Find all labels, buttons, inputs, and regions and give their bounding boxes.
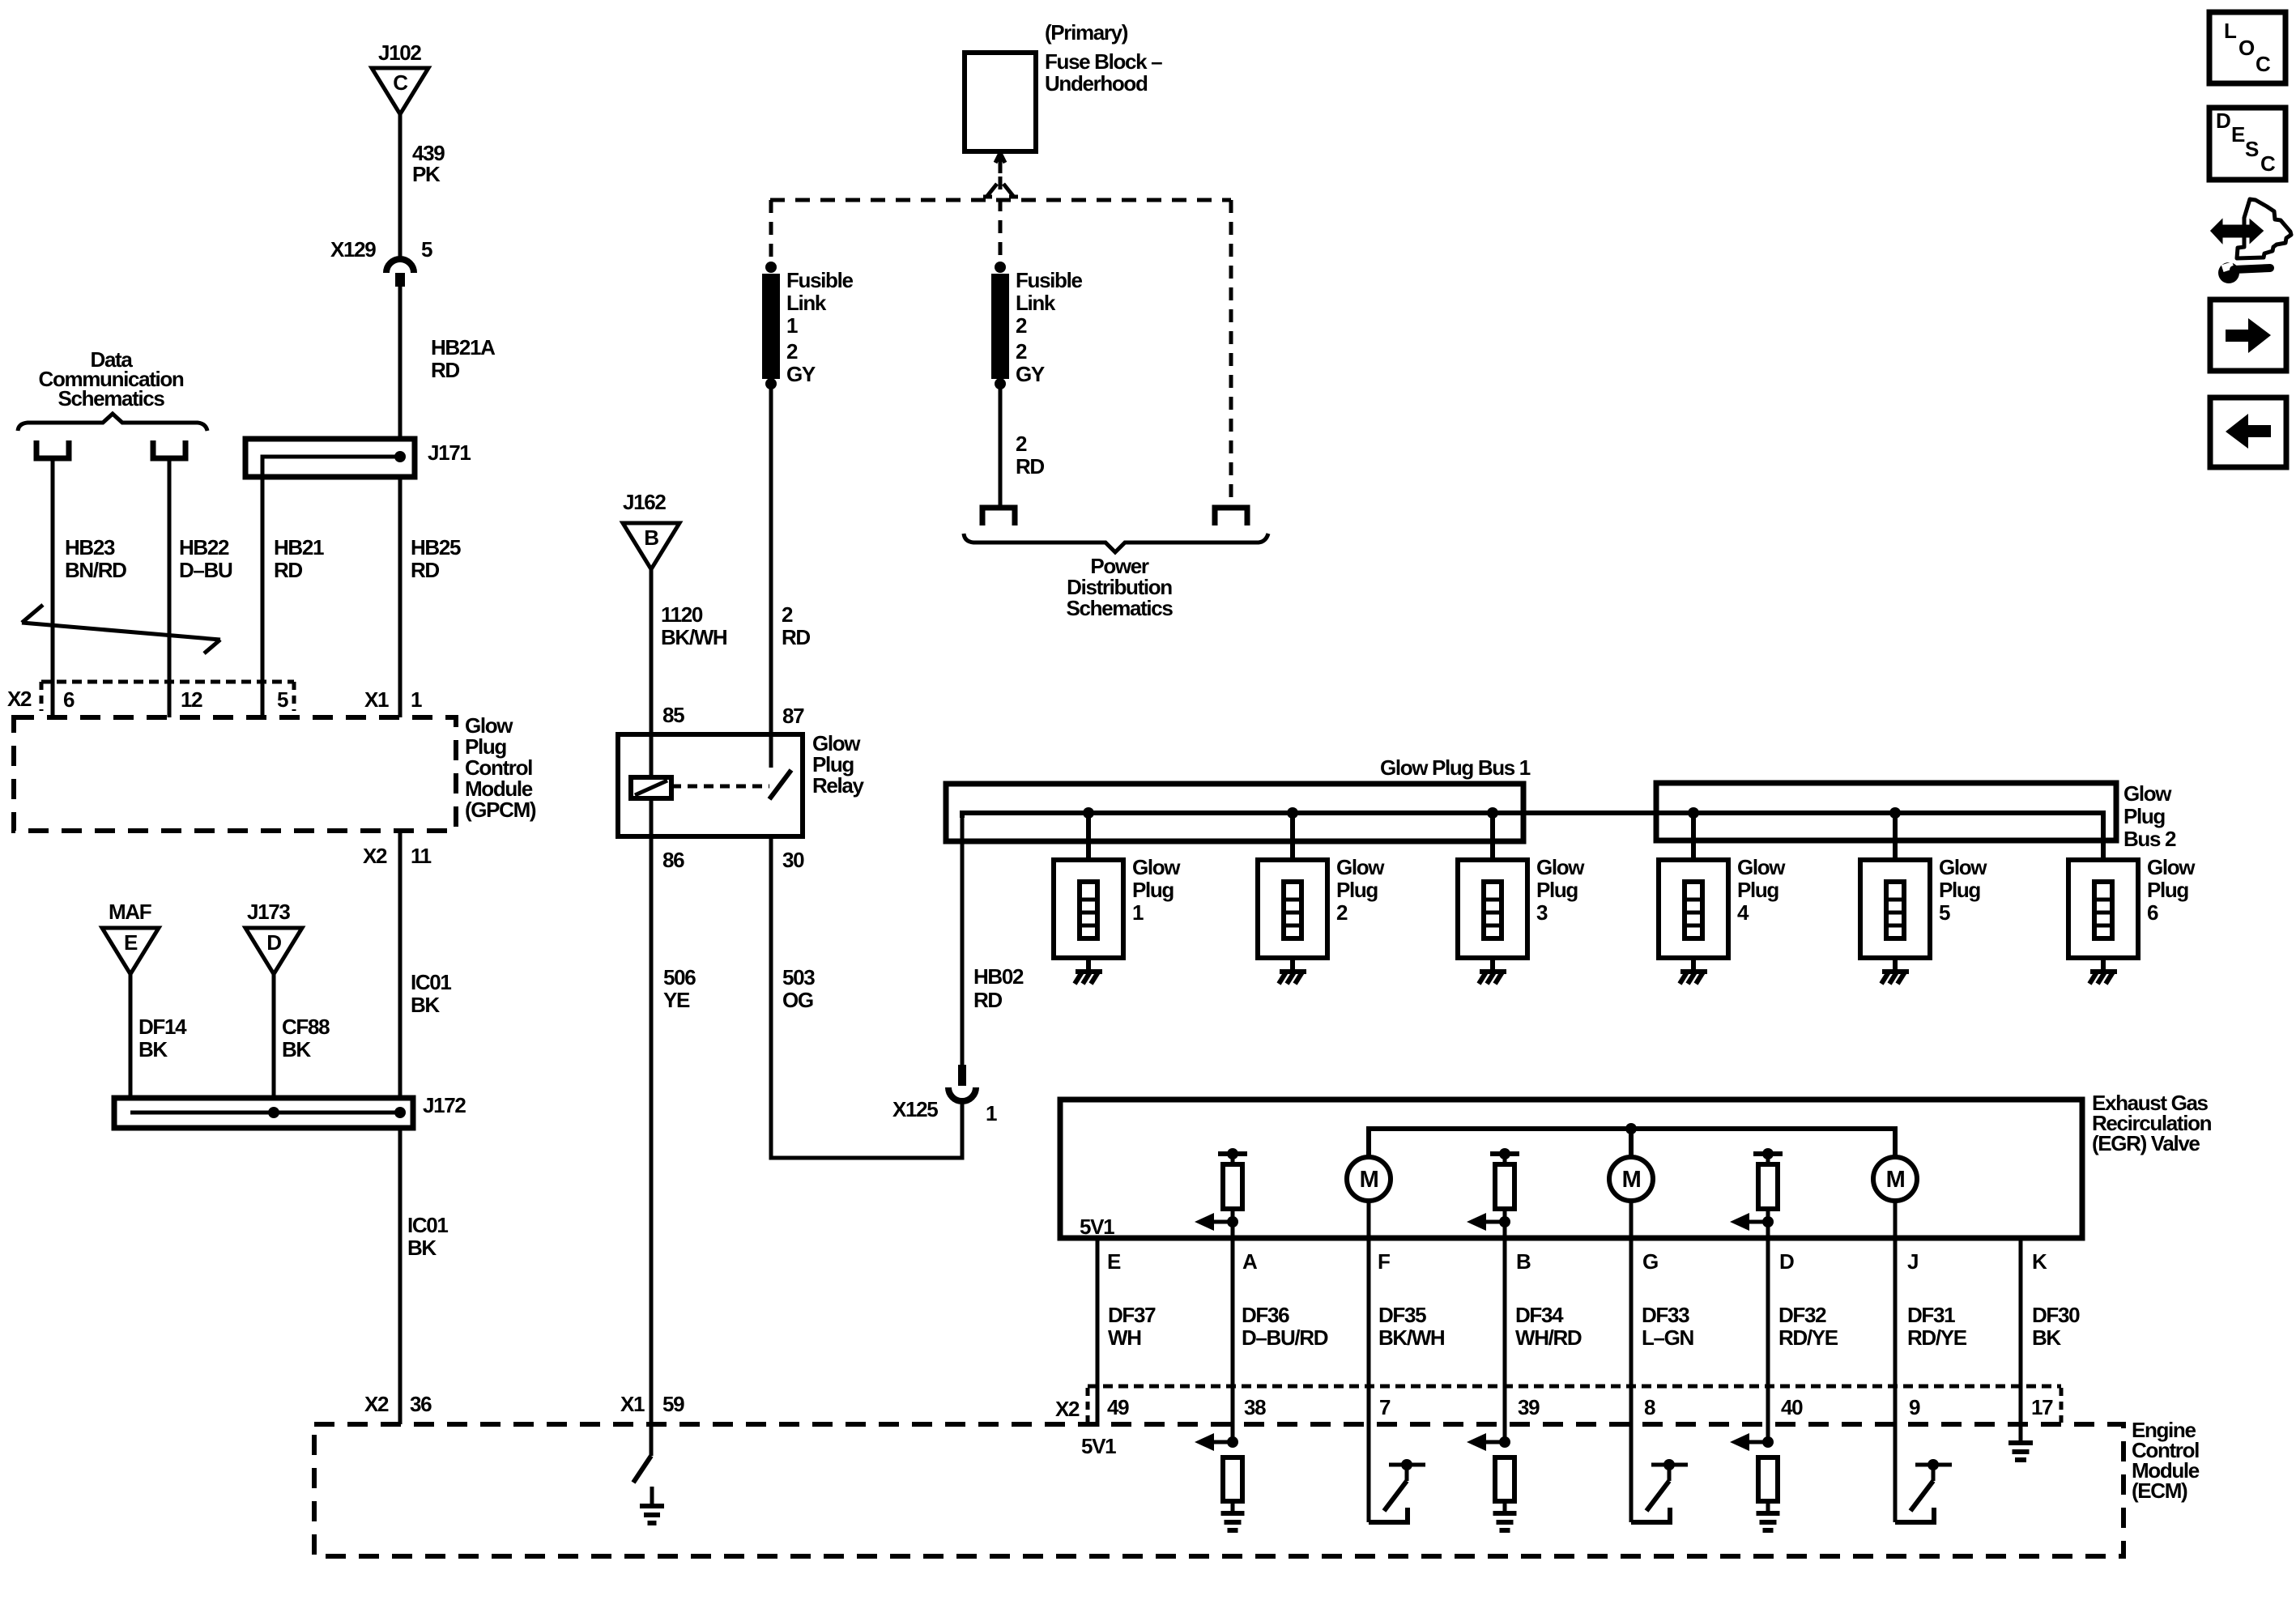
svg-text:85: 85 xyxy=(662,703,684,727)
earth ground at ECM pin 59 xyxy=(640,1504,664,1508)
svg-text:(Primary): (Primary) xyxy=(1045,20,1128,45)
junction dot J171 xyxy=(394,451,406,462)
svg-text:Fuse Block –Underhood: Fuse Block –Underhood xyxy=(1045,49,1162,96)
relay internal dashed link xyxy=(671,785,769,789)
glow plug 2 box xyxy=(1258,860,1327,958)
glow plug 3 box xyxy=(1458,860,1527,958)
svg-text:7: 7 xyxy=(1379,1395,1391,1419)
svg-text:49: 49 xyxy=(1107,1395,1129,1419)
svg-text:HB22D–BU: HB22D–BU xyxy=(179,535,232,582)
inline connector X125 pin 1 xyxy=(948,1065,976,1101)
svg-text:12: 12 xyxy=(181,687,202,712)
wire 1120 BK/WH from J162 to relay pin 85 xyxy=(650,569,654,734)
svg-text:DF33L–GN: DF33L–GN xyxy=(1642,1303,1694,1350)
svg-text:X129: X129 xyxy=(330,237,376,262)
chassis ground at glow plug 6 xyxy=(2090,969,2117,974)
svg-text:G: G xyxy=(1642,1249,1658,1274)
svg-text:J171: J171 xyxy=(428,440,471,465)
wire to glow plug 3 xyxy=(1490,813,1495,972)
wire 503 OG from relay pin 30 to X125 xyxy=(771,836,962,1158)
ECM ground switch at pin 59 xyxy=(633,1456,652,1506)
ECM connector X2 dotted pin line xyxy=(1088,1385,2061,1389)
splice block J172 xyxy=(114,1098,413,1128)
junction dot glow plug bus at glow plug 5 xyxy=(1889,807,1901,819)
off-page connector bracket below dashed feed xyxy=(1215,508,1247,525)
glow plug 4 heater element xyxy=(1685,882,1702,938)
svg-text:17: 17 xyxy=(2031,1395,2053,1419)
svg-text:X2: X2 xyxy=(1055,1397,1080,1421)
svg-text:X2: X2 xyxy=(363,844,387,868)
icon two-way communication and tools xyxy=(2212,199,2291,283)
svg-text:K: K xyxy=(2032,1249,2047,1274)
svg-text:D: D xyxy=(2216,108,2230,133)
svg-text:X2: X2 xyxy=(364,1392,389,1416)
over-brace for Data Communication Schematics xyxy=(18,414,207,431)
connector triangle J173 (D) xyxy=(245,928,302,974)
svg-text:59: 59 xyxy=(662,1392,684,1416)
svg-text:5: 5 xyxy=(277,687,288,712)
svg-text:5V1: 5V1 xyxy=(1081,1434,1116,1458)
fusible link 2 element xyxy=(991,274,1009,379)
chassis ground at glow plug 2 xyxy=(1280,969,1306,974)
junction dot on EGR motor rail xyxy=(1625,1123,1637,1134)
svg-text:F: F xyxy=(1378,1249,1390,1274)
relay switch contact from pin 87 xyxy=(769,734,773,768)
splice bus inside J172 xyxy=(130,1111,400,1115)
wire DF14 BK from MAF to J172 xyxy=(129,974,133,1113)
wire 2 RD from Fusible Link 1 to relay pin 87 xyxy=(769,389,773,734)
junction dot glow plug bus at glow plug 4 xyxy=(1688,807,1699,819)
earth ground at ECM pin 17 xyxy=(2008,1440,2033,1445)
EGR position sensor resistor at pin A xyxy=(1218,1151,1247,1156)
glow plug 3 heater element xyxy=(1484,882,1502,938)
relay box Glow Plug Relay xyxy=(618,734,803,836)
svg-text:B: B xyxy=(1516,1249,1531,1274)
GPCM connector X2 dotted pin line xyxy=(41,680,294,684)
svg-text:30: 30 xyxy=(782,848,804,872)
EGR motor M at pin F xyxy=(1347,1157,1391,1201)
ECM driver switch at pin 7 xyxy=(1369,1508,1408,1522)
svg-text:Exhaust GasRecirculation(EGR): Exhaust GasRecirculation(EGR) Valve xyxy=(2092,1091,2212,1155)
branch split marks below fuse block xyxy=(983,184,1018,197)
svg-text:D: D xyxy=(1779,1249,1794,1274)
junction dot J172 at IC01 xyxy=(394,1107,406,1118)
wire DF32 RD/YE from EGR pin D to ECM pin 40 xyxy=(1766,1209,1770,1442)
glow plug bus wire xyxy=(962,813,2103,860)
svg-text:L: L xyxy=(2224,19,2237,43)
EGR valve box xyxy=(1060,1100,2082,1238)
wire DF31 RD/YE from EGR pin J to ECM pin 9 xyxy=(1893,1200,1898,1522)
junction dot above Fusible Link 2 xyxy=(995,262,1006,273)
ECM driver switch at pin 9 xyxy=(1895,1508,1934,1522)
svg-text:M: M xyxy=(1360,1167,1378,1193)
module box Engine Control Module ECM (dashed) xyxy=(314,1424,2123,1556)
svg-text:C: C xyxy=(2256,52,2271,76)
svg-text:O: O xyxy=(2238,36,2255,60)
splice bus inside J171 xyxy=(262,457,400,717)
wire 2 RD from Fusible Link 2 to power distribution xyxy=(999,389,1003,505)
ECM sense resistor to ground at pin 38 xyxy=(1227,1436,1238,1448)
wire IC01 BK from J172 to ECM pin 36 xyxy=(398,1128,403,1424)
relay switch blade xyxy=(769,770,791,799)
connector triangle J162 (B) xyxy=(623,523,679,569)
wire IC01 BK from GPCM pin 11 to J172 xyxy=(398,831,403,1113)
arrow lead into fuse block xyxy=(995,153,1005,173)
svg-text:39: 39 xyxy=(1518,1395,1540,1419)
svg-text:11: 11 xyxy=(411,844,432,868)
wire 506 YE from relay pin 86 to ECM pin 59 xyxy=(650,836,654,1456)
EGR position sensor resistor at pin D xyxy=(1753,1151,1783,1156)
dashed drop to right off-page bracket xyxy=(1229,200,1233,504)
fuse block underhood box xyxy=(965,53,1036,151)
ECM sense resistor to ground at pin 40 xyxy=(1762,1436,1774,1448)
GPCM X2 connector tick right xyxy=(292,682,296,711)
module box Glow Plug Control Module GPCM (dashed) xyxy=(14,717,456,831)
wire DF30 BK from EGR pin K to ECM pin 17 xyxy=(2019,1238,2023,1443)
chassis ground at glow plug 3 xyxy=(1480,969,1506,974)
glow plug 4 box xyxy=(1659,860,1728,958)
wire to glow plug 1 xyxy=(1086,813,1091,972)
wire CF88 BK from J173 to J172 xyxy=(272,974,276,1113)
wire HB25 RD from J171 to GPCM pin 1 xyxy=(398,477,403,717)
svg-text:M: M xyxy=(1622,1167,1641,1193)
dashed feed from fuse block (vertical) xyxy=(999,177,1003,263)
wire DF36 D-BU/RD from EGR pin A to ECM pin 38 xyxy=(1231,1209,1235,1442)
svg-text:1: 1 xyxy=(411,687,422,712)
wire DF35 BK/WH from EGR pin F to ECM pin 7 xyxy=(1367,1200,1371,1522)
svg-text:S: S xyxy=(2245,137,2259,161)
chassis ground at glow plug 4 xyxy=(1680,969,1707,974)
svg-text:87: 87 xyxy=(782,704,804,728)
svg-text:8: 8 xyxy=(1644,1395,1655,1419)
wire DF33 L-GN from EGR pin G to ECM pin 8 xyxy=(1629,1200,1634,1522)
icon box LOC xyxy=(2209,12,2285,83)
glow plug 6 box xyxy=(2068,860,2138,958)
glow plug 1 box xyxy=(1054,860,1123,958)
svg-text:J: J xyxy=(1907,1249,1918,1274)
EGR motor supply rail xyxy=(1369,1129,1895,1157)
icon box forward arrow xyxy=(2210,300,2286,371)
continuation arrow crossing HB23/HB22 wires xyxy=(22,605,220,653)
svg-text:B: B xyxy=(644,525,658,550)
ECM X2 connector tick right xyxy=(2060,1388,2064,1423)
svg-text:9: 9 xyxy=(1909,1395,1920,1419)
connector triangle J102 (C) xyxy=(372,68,428,114)
svg-text:Glow Plug Bus 1: Glow Plug Bus 1 xyxy=(1380,755,1531,780)
svg-text:J162: J162 xyxy=(623,490,666,514)
glow plug 1 heater element xyxy=(1080,882,1097,938)
junction dot below Fusible Link 2 xyxy=(995,378,1006,389)
junction dot glow plug bus at glow plug 2 xyxy=(1287,807,1298,819)
junction dot J172 at CF88 xyxy=(268,1107,279,1118)
wire 439 PK from J102 to X129 xyxy=(398,113,403,259)
chassis ground at glow plug 1 xyxy=(1076,969,1102,974)
svg-text:C: C xyxy=(393,70,408,95)
svg-text:M: M xyxy=(1886,1167,1905,1193)
off-page connector bracket below Fusible Link 2 xyxy=(982,508,1015,525)
under-brace for Power Distribution Schematics xyxy=(964,534,1268,552)
off-page connector bracket for wire HB23 xyxy=(36,440,69,458)
glow plug 5 heater element xyxy=(1886,882,1904,938)
ECM X2 connector tick left xyxy=(1086,1388,1090,1423)
svg-text:40: 40 xyxy=(1781,1395,1803,1419)
wire HB21A RD from X129 to splice J171 xyxy=(398,287,403,458)
dashed drop to Fusible Link 1 xyxy=(769,200,773,261)
svg-text:E: E xyxy=(1107,1249,1121,1274)
junction dot glow plug bus at glow plug 1 xyxy=(1083,807,1094,819)
svg-text:MAF: MAF xyxy=(109,900,151,924)
glow plug bus 2 box xyxy=(1656,783,2116,840)
relay coil wire inside box xyxy=(650,734,654,777)
glow plug 6 heater element xyxy=(2094,882,2112,938)
inline connector X129 pin 5 xyxy=(386,259,414,287)
wire HB02 RD from glow plug bus 1 to X125 xyxy=(961,815,965,1065)
junction dot above Fusible Link 1 xyxy=(765,262,777,273)
GPCM X2 connector tick left xyxy=(40,682,44,711)
wire DF34 WH/RD from EGR pin B to ECM pin 39 xyxy=(1503,1209,1507,1442)
svg-text:J172: J172 xyxy=(423,1093,466,1117)
svg-text:6: 6 xyxy=(63,687,75,712)
ECM driver switch at pin 8 xyxy=(1631,1508,1670,1522)
svg-text:J173: J173 xyxy=(247,900,290,924)
relay coil element xyxy=(631,777,671,798)
connector triangle MAF (E) xyxy=(102,928,159,974)
glow plug 2 heater element xyxy=(1284,882,1301,938)
splice block J171 xyxy=(245,439,415,477)
svg-text:C: C xyxy=(2260,151,2276,176)
wire to glow plug 5 xyxy=(1893,813,1898,972)
off-page connector bracket for wire HB22 xyxy=(153,440,185,458)
chassis ground at glow plug 5 xyxy=(1882,969,1909,974)
wire HB22 D-BU xyxy=(168,458,172,717)
EGR position sensor resistor at pin B xyxy=(1490,1151,1519,1156)
svg-text:86: 86 xyxy=(662,848,684,872)
svg-text:38: 38 xyxy=(1244,1395,1266,1419)
svg-text:36: 36 xyxy=(410,1392,432,1416)
wire HB21 RD from J171 to GPCM pin 5 xyxy=(261,477,265,717)
svg-text:5: 5 xyxy=(421,237,432,262)
glow plug bus 1 box xyxy=(946,784,1523,841)
junction dot below Fusible Link 1 xyxy=(765,378,777,389)
svg-text:503OG: 503OG xyxy=(782,965,815,1012)
svg-text:E: E xyxy=(2231,122,2245,147)
icon box DESC xyxy=(2209,108,2285,180)
svg-text:X1: X1 xyxy=(620,1392,645,1416)
glow plug 5 box xyxy=(1860,860,1930,958)
ECM sense resistor to ground at pin 39 xyxy=(1499,1436,1510,1448)
svg-text:X2: X2 xyxy=(7,687,32,711)
svg-text:E: E xyxy=(124,930,138,955)
wire to glow plug 4 xyxy=(1691,813,1696,972)
svg-text:J102: J102 xyxy=(378,40,421,65)
icon box back arrow xyxy=(2210,398,2286,467)
EGR motor M at pin J xyxy=(1873,1157,1917,1201)
svg-text:X125: X125 xyxy=(892,1097,938,1121)
svg-text:X1: X1 xyxy=(364,687,389,712)
junction dot glow plug bus at glow plug 3 xyxy=(1487,807,1498,819)
svg-text:1: 1 xyxy=(986,1101,997,1125)
svg-text:A: A xyxy=(1242,1249,1258,1274)
wire HB23 BN/RD xyxy=(51,458,55,717)
dashed feed bus (horizontal) xyxy=(770,198,1231,202)
wire to glow plug 2 xyxy=(1290,813,1295,972)
wire DF37 WH from EGR pin E to ECM pin 49 xyxy=(1096,1238,1100,1427)
svg-text:5V1: 5V1 xyxy=(1080,1215,1114,1239)
fusible link 1 element xyxy=(762,274,780,379)
wire to glow plug 6 xyxy=(2101,813,2106,972)
EGR motor M at pin G xyxy=(1609,1157,1653,1201)
svg-text:D: D xyxy=(266,930,281,955)
